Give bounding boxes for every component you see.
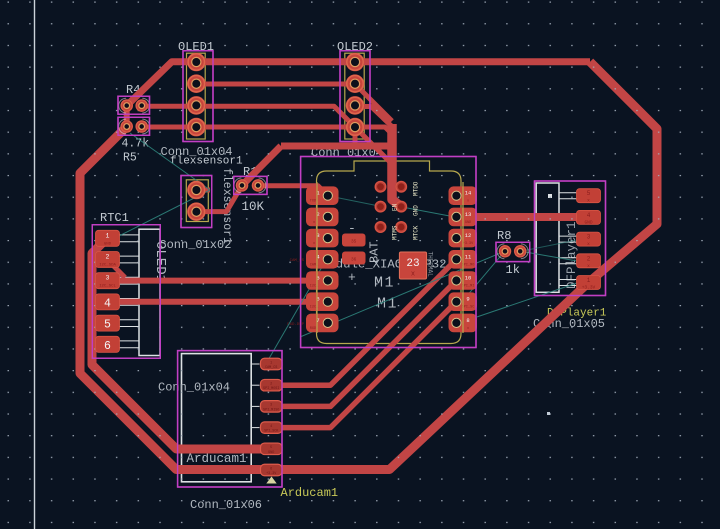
svg-text:5: 5 <box>104 319 111 332</box>
wire: OLED1 pad2 to OLED2 pad2 <box>196 82 355 87</box>
resistor R4 silk arcs <box>119 98 126 113</box>
svg-text:1: 1 <box>270 361 272 365</box>
svg-text:2: 2 <box>270 383 272 387</box>
connector flexsensor1 outline <box>159 156 243 253</box>
wire: R4 pad2 to OLED pads row3 <box>142 106 392 164</box>
svg-text:10: 10 <box>465 275 472 282</box>
wire: RTC1 pad4 to XIAO pad6 <box>108 299 328 305</box>
svg-text:SPI_MISO: SPI_MISO <box>263 408 279 412</box>
wire: RTC1 pad1 GND down left side to Arducam pad5 <box>92 238 266 449</box>
DFPlayer1 pads 5-1 <box>577 189 601 291</box>
svg-text:I2C_SDA: I2C_SDA <box>99 264 116 268</box>
wire: XIAO pad9 SCK to Arducam pad4 <box>266 302 456 428</box>
RTC1 module outline <box>92 211 168 358</box>
svg-text:CAM_: CAM_ <box>310 263 319 267</box>
svg-text:13: 13 <box>465 211 472 218</box>
svg-text:x: x <box>587 264 590 269</box>
wire: OLED2 pad2 diagonal to vertical bus <box>355 84 392 121</box>
resistor R8 pads <box>499 245 527 258</box>
svg-text:35: 35 <box>351 239 357 245</box>
wire: main loop right and bottom <box>80 62 657 470</box>
svg-text:x: x <box>467 327 469 331</box>
ratsnest XIAO pad8 to DFPlayer pad1 <box>462 283 577 322</box>
svg-text:x: x <box>411 271 415 279</box>
svg-text:EN: EN <box>392 203 399 211</box>
connector OLED1 outline <box>161 40 233 159</box>
svg-text:12: 12 <box>465 232 472 239</box>
wire: R5 pad2 row through OLED pads row4 <box>142 127 392 134</box>
svg-text:SPI_SCK: SPI_SCK <box>264 430 279 434</box>
connector OLED2 pads 1-4 <box>346 53 365 137</box>
connector OLED2 outline <box>311 40 383 160</box>
resistor R5 pads <box>120 120 148 133</box>
svg-text:36: 36 <box>351 257 357 263</box>
svg-text:x: x <box>313 221 315 225</box>
wire: R4 pad1 to R5 pad1 link <box>124 103 130 128</box>
svg-text:I2C_: I2C_ <box>310 306 319 310</box>
svg-text:23: 23 <box>406 258 419 270</box>
ratsnest R5 to flexsensor1 <box>130 133 210 190</box>
svg-text:GND: GND <box>584 219 592 225</box>
module U1 XIAO fab edges over pads <box>316 182 318 333</box>
svg-text:4: 4 <box>104 297 111 310</box>
svg-text:5: 5 <box>587 190 591 197</box>
svg-text:x: x <box>467 200 469 204</box>
resistor R5 silk arcs <box>119 119 126 134</box>
svg-text:MTMS: MTMS <box>392 225 399 240</box>
wire: flexsensor pad1 stub <box>196 188 210 193</box>
svg-text:3: 3 <box>270 404 272 408</box>
wire: R1 pad1 diagonal up <box>242 146 281 185</box>
RTC1 pads 1-6 <box>96 230 120 352</box>
ratsnest XIAO GND pad to pad13 <box>402 207 455 217</box>
resistor R8 silk arcs <box>497 244 504 259</box>
ratsnest module area to R8 pad1 <box>300 252 504 338</box>
ratsnest R8 pad2 to DFPlayer pad2 <box>521 251 577 261</box>
svg-text:4: 4 <box>270 425 272 429</box>
ratsnest XIAO pad1 to EN pad <box>329 196 379 206</box>
svg-text:3: 3 <box>106 275 110 282</box>
wire: OLED2 pad3 jog to vertical <box>355 107 392 127</box>
svg-text:CAM_CS: CAM_CS <box>265 366 277 370</box>
svg-text:GND: GND <box>413 205 420 216</box>
wire: OLED2 pad4 drop to R1 rail <box>353 127 358 146</box>
module U1 XIAO left pads 1-7 <box>306 186 339 332</box>
resistor R4 outline <box>118 83 150 114</box>
svg-text:6: 6 <box>270 467 272 471</box>
wire: main loop top (R4 pad1 to top rail) <box>127 62 590 106</box>
wire: XIAO pad10 MISO to Arducam pad3 <box>266 281 456 407</box>
svg-text:+3.3V: +3.3V <box>463 242 474 246</box>
courtyard overlays <box>92 51 605 487</box>
wire: vertical bus into XIAO EN pad <box>392 124 401 207</box>
ratsnest RTC1 to flexsensor1 <box>109 190 210 241</box>
svg-text:x: x <box>587 199 590 204</box>
Arducam1 module outline <box>158 351 338 512</box>
svg-text:2: 2 <box>106 254 110 261</box>
svg-text:1: 1 <box>587 277 591 284</box>
svg-text:MTCK: MTCK <box>413 225 420 240</box>
wire: XIAO pad11 MOSI to Arducam pad2 <box>266 259 456 385</box>
svg-text:+3.3V: +3.3V <box>266 472 277 476</box>
svg-text:GND: GND <box>465 221 471 225</box>
svg-text:2: 2 <box>587 255 591 262</box>
wire: RTC1 pad3 to XIAO pad5 <box>108 278 328 284</box>
module U1 XIAO battery pads <box>342 234 366 265</box>
module U1 XIAO test pads MTMS/EN/MTCK/GND/MTDO <box>375 181 420 240</box>
connector flexsensor1 pads <box>187 181 206 221</box>
svg-text:9: 9 <box>466 296 469 303</box>
wire: R1 pad2 to XIAO pad1 <box>258 186 328 196</box>
wire: R1 pad1 to vertical bus <box>281 143 392 150</box>
resistor R8 outline <box>496 229 530 277</box>
resistor R1 outline <box>234 165 267 214</box>
svg-text:14: 14 <box>465 190 472 197</box>
wire: XIAO pad13 GND to DFPlayer pad4 <box>456 213 588 221</box>
wire: R1 pad1 to flexsensor pad2 <box>196 185 242 211</box>
svg-text:I2C_: I2C_ <box>310 285 319 289</box>
svg-text:3: 3 <box>587 234 591 241</box>
wire: RTC1 pad2 jog <box>108 260 126 278</box>
module U1 XIAO thermal pad 23 <box>399 252 426 279</box>
svg-text:5: 5 <box>270 446 272 450</box>
ratsnest R8 pad2 to DFPlayer pad3 <box>521 240 577 251</box>
svg-text:GND: GND <box>104 242 112 246</box>
svg-text:11: 11 <box>465 253 472 260</box>
resistor R1 silk arcs <box>234 178 241 193</box>
svg-text:I2C_SCL: I2C_SCL <box>99 285 116 289</box>
svg-text:1: 1 <box>106 232 110 239</box>
svg-text:MTDO: MTDO <box>413 181 420 196</box>
module U1 Seeed XIAO outline <box>287 157 476 348</box>
ratsnest Arducam pad1 to XIAO pad4 <box>267 260 326 362</box>
Arducam1 pads 1-6 <box>261 358 283 476</box>
module U1 XIAO right pads 14-8 <box>449 186 478 332</box>
resistor R1 pads <box>236 179 265 192</box>
svg-text:GND: GND <box>268 451 274 455</box>
svg-text:SPI_MOSI: SPI_MOSI <box>263 387 279 391</box>
svg-text:6: 6 <box>104 340 111 353</box>
svg-text:4: 4 <box>587 212 591 219</box>
connector OLED1 pads 1-4 <box>187 53 206 137</box>
ratsnest XIAO pad9 to R8 pad1 <box>462 252 504 302</box>
svg-text:+3.3V: +3.3V <box>582 285 596 291</box>
svg-text:x: x <box>587 242 590 247</box>
svg-text:8: 8 <box>466 317 469 324</box>
resistor R5 outline <box>118 117 150 164</box>
svg-text:x: x <box>313 242 315 246</box>
DFPlayer1 module outline <box>533 181 607 331</box>
resistor R4 pads <box>120 99 148 112</box>
